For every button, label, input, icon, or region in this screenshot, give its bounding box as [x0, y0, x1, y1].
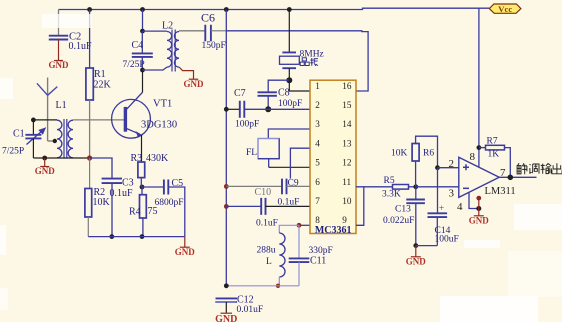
wire pin2 node to opamp — [438, 167, 459, 169]
capacitor C14 — [428, 213, 448, 217]
svg-text:C9: C9 — [288, 178, 299, 188]
junction top rail bus — [224, 7, 229, 12]
svg-text:4: 4 — [457, 201, 463, 213]
wire C1 top lead — [32, 120, 34, 135]
wire C3 bottom lead — [111, 183, 113, 237]
junction bus C9 — [224, 184, 229, 189]
svg-text:MC3361: MC3361 — [315, 225, 352, 236]
junction L3 bottom — [276, 284, 280, 288]
svg-text:C8: C8 — [278, 88, 290, 99]
wire C8 bottom lead — [267, 96, 269, 110]
wire R4 top lead — [141, 187, 143, 195]
svg-text:C6: C6 — [201, 11, 215, 25]
svg-text:GND: GND — [35, 166, 56, 176]
junction gnd rail — [413, 243, 418, 248]
svg-text:8: 8 — [470, 151, 476, 163]
ground C12 — [221, 312, 233, 314]
junction C8 pin2 — [265, 106, 271, 112]
label output 解调输出 — [517, 163, 562, 174]
svg-text:4: 4 — [315, 138, 320, 148]
wire R1 top lead — [89, 10, 91, 69]
junction R3 R4 C5 — [140, 185, 145, 190]
junction pin8 node — [297, 223, 302, 228]
ground L1 — [40, 158, 49, 167]
svg-text:FL: FL — [246, 148, 257, 158]
wire bottom rail tank — [226, 285, 299, 287]
wire node to C3 — [90, 158, 112, 179]
capacitor C11 — [289, 258, 310, 262]
junction crystal top rail — [287, 7, 292, 12]
svg-text:GND: GND — [406, 256, 427, 266]
junction L1 bottom gnd — [42, 156, 47, 161]
wire L2 feed — [142, 10, 144, 32]
svg-text:0.1uF: 0.1uF — [256, 219, 278, 229]
junction R5 C13 node — [413, 184, 418, 189]
svg-text:Vcc: Vcc — [498, 4, 512, 14]
svg-text:R7: R7 — [487, 137, 498, 147]
capacitor C12 — [216, 298, 238, 302]
wire pin8 stub — [299, 224, 310, 226]
inductor L1 primary — [57, 120, 62, 158]
svg-text:C4: C4 — [132, 40, 144, 51]
wire C1 bottom lead — [32, 138, 34, 158]
wire R2 bottom lead — [87, 217, 89, 237]
capacitor C3 — [102, 179, 122, 184]
svg-text:8: 8 — [315, 215, 320, 225]
svg-text:1: 1 — [315, 81, 320, 91]
svg-text:GND: GND — [49, 60, 70, 70]
svg-text:9: 9 — [342, 215, 347, 225]
wire R7 right lead — [505, 148, 511, 178]
wire C13 bottom lead — [415, 203, 417, 245]
svg-text:100uF: 100uF — [435, 235, 459, 245]
wire gnd rail — [416, 245, 438, 247]
svg-text:0.1uF: 0.1uF — [69, 41, 93, 52]
svg-text:288u: 288u — [257, 246, 276, 256]
svg-text:VT1: VT1 — [153, 99, 172, 110]
wire collector — [142, 70, 144, 93]
wire C14 bottom lead — [436, 217, 438, 246]
wire pin11 to R5 — [364, 186, 393, 188]
svg-text:100pF: 100pF — [235, 120, 259, 130]
wire pin4 — [290, 148, 310, 178]
wire crystal top stem — [288, 10, 290, 53]
svg-text:R4: R4 — [129, 207, 141, 218]
svg-text:7: 7 — [315, 196, 320, 206]
wire bus to C9 — [226, 185, 282, 187]
svg-text:C13: C13 — [395, 204, 411, 214]
svg-text:3: 3 — [315, 119, 320, 129]
resistor R3 — [138, 162, 145, 178]
svg-text:7/25P: 7/25P — [2, 147, 24, 157]
wire FL bottom lead — [268, 159, 270, 168]
transistor VT1 — [112, 93, 151, 139]
svg-text:2: 2 — [315, 100, 320, 110]
arrow C1 variable — [27, 128, 46, 144]
wire R5 to node — [409, 186, 416, 188]
svg-text:C10: C10 — [255, 187, 272, 198]
svg-text:GND: GND — [469, 215, 490, 225]
svg-text:6: 6 — [315, 177, 320, 187]
capacitor C13 — [406, 200, 425, 204]
svg-text:150pF: 150pF — [202, 41, 226, 51]
wire C12 bottom stem — [225, 302, 227, 313]
ground L2 — [189, 78, 199, 80]
junction top rail R1 — [87, 7, 92, 12]
wire node to C5 — [142, 186, 164, 188]
svg-text:C12: C12 — [237, 294, 254, 305]
svg-text:430K: 430K — [146, 153, 169, 164]
wire R6 top over — [416, 136, 438, 168]
wire L1 top left — [33, 119, 57, 121]
label crystal 晶振 — [300, 58, 318, 66]
capacitor C8 — [258, 92, 277, 96]
wire L2 sec top to C6 — [179, 30, 205, 32]
op-amp U2 LM311 — [459, 157, 499, 197]
wire pin3 to FL — [268, 129, 310, 139]
svg-text:10K: 10K — [93, 197, 111, 208]
node antenna tap — [53, 139, 57, 143]
resistor R2 — [85, 189, 92, 218]
svg-text:1K: 1K — [488, 150, 500, 160]
wire L2 sec bottom gnd — [179, 67, 194, 79]
junction bus C10 — [224, 204, 229, 209]
capacitor C7 — [240, 101, 245, 118]
wire bus to C10 — [226, 205, 261, 207]
svg-text:GND: GND — [184, 79, 205, 89]
svg-text:3.3K: 3.3K — [382, 190, 401, 200]
svg-text:15: 15 — [342, 100, 352, 110]
junction C1 top — [31, 118, 36, 123]
junction C4 top — [140, 29, 145, 34]
capacitor C6 — [205, 25, 211, 41]
node bias red — [87, 155, 92, 160]
svg-text:5: 5 — [315, 158, 320, 168]
core L2 — [172, 30, 175, 72]
wire C10 to pin7 — [266, 205, 311, 207]
svg-text:16: 16 — [342, 81, 352, 91]
junction top rail L2 — [140, 7, 145, 12]
svg-text:11: 11 — [342, 177, 351, 187]
inductor L2 primary — [167, 32, 172, 68]
svg-text:C3: C3 — [122, 178, 134, 189]
capacitor C9 — [282, 179, 287, 195]
svg-text:100pF: 100pF — [278, 99, 302, 109]
wire Vcc drop — [478, 8, 480, 167]
wire output — [499, 176, 536, 178]
svg-text:10K: 10K — [391, 149, 408, 159]
wire C11 feed — [298, 225, 300, 258]
inductor L3 288u — [279, 233, 285, 277]
svg-text:C1: C1 — [13, 129, 25, 140]
core L1 — [64, 119, 67, 159]
wire C5 right down — [168, 187, 185, 237]
junction R4 rail — [140, 234, 145, 239]
inductor L1 secondary — [68, 120, 73, 158]
wire FL to pin5 — [269, 166, 310, 168]
wire C6 to pin16 riser — [226, 31, 368, 91]
capacitor C4 — [132, 53, 153, 57]
svg-text:10: 10 — [342, 196, 352, 206]
svg-text:R1: R1 — [94, 69, 106, 80]
wire C9 to pin6 — [287, 185, 311, 187]
svg-text:13: 13 — [342, 138, 352, 148]
svg-text:12: 12 — [342, 158, 352, 168]
ground LM311 — [474, 198, 484, 216]
junction pin2 node — [435, 165, 440, 170]
wire node to opamp pin3 — [416, 186, 459, 188]
capacitor C1 variable — [25, 135, 41, 139]
ground C5 rail — [180, 237, 190, 248]
svg-text:R5: R5 — [384, 176, 395, 186]
wire bus to C7 — [226, 108, 239, 110]
resistor R7 — [486, 145, 505, 150]
wire tank top — [279, 225, 299, 233]
power symbol Vcc — [489, 4, 521, 14]
svg-text:3DG130: 3DG130 — [141, 120, 177, 131]
wire C2 top stem — [58, 10, 60, 36]
svg-text:0.01uF: 0.01uF — [237, 305, 264, 315]
svg-text:0.1uF: 0.1uF — [110, 188, 134, 199]
op-amp U1 MC3361 body — [310, 80, 356, 233]
junction bus bottom — [224, 283, 229, 288]
junction output R7 — [508, 175, 514, 181]
wire node to R2 — [89, 158, 91, 189]
wire R7 left lead — [479, 147, 486, 149]
wire C4 bottom lead — [141, 57, 143, 70]
wire L3 bottom lead — [278, 277, 280, 286]
wire C6 to bus — [211, 30, 226, 32]
junction pin4 gnd — [476, 206, 481, 211]
wire C11 bottom lead — [298, 262, 300, 286]
filter FL — [258, 139, 279, 159]
wire C4 L2 bottom link — [143, 67, 168, 70]
wire pin1 — [289, 80, 310, 91]
svg-text:14: 14 — [342, 119, 352, 129]
wire R3 bottom lead — [140, 178, 142, 187]
junction C3 rail — [109, 234, 114, 239]
wire Vcc top rail left — [59, 8, 490, 9]
wire emitter — [141, 135, 143, 163]
svg-text:3: 3 — [449, 187, 455, 199]
capacitor C12 lower plate tint — [216, 301, 237, 303]
ground C13 C14 — [411, 246, 421, 257]
svg-text:L1: L1 — [56, 100, 67, 111]
junction bus C7 — [224, 107, 229, 112]
svg-text:22K: 22K — [94, 80, 112, 91]
junction crystal bottom — [286, 77, 292, 83]
wire bottom left rail — [88, 236, 185, 238]
wire C14 feed — [437, 168, 439, 214]
antenna — [37, 78, 57, 142]
wire vertical bus — [225, 10, 227, 286]
capacitor C5 — [164, 180, 168, 195]
inductor L2 secondary — [174, 32, 179, 68]
svg-text:0.022uF: 0.022uF — [383, 216, 414, 226]
junction C4 bottom — [140, 68, 145, 73]
wire xtal to C8 — [268, 80, 289, 92]
wire C13 top lead — [415, 187, 417, 200]
node gnd via — [476, 196, 481, 201]
capacitor C2 — [49, 36, 68, 40]
capacitor C10 — [261, 198, 265, 215]
svg-text:GND: GND — [175, 247, 196, 257]
ground C2 — [54, 40, 63, 61]
svg-text:330pF: 330pF — [309, 246, 333, 256]
crystal Y1 8MHz — [280, 52, 300, 68]
svg-text:C7: C7 — [234, 88, 246, 99]
wire R1 bottom lead — [89, 100, 91, 158]
wire L1 bottom — [33, 157, 89, 159]
svg-text:2: 2 — [449, 158, 455, 170]
resistor R4 — [140, 195, 147, 218]
svg-text:LM311: LM311 — [485, 186, 516, 197]
wire C4 L2 top link — [143, 30, 168, 32]
wire C7 to pin2 — [244, 108, 310, 110]
svg-text:6800pF: 6800pF — [155, 198, 184, 208]
resistor R1 — [86, 68, 93, 100]
svg-text:L: L — [266, 257, 272, 267]
wire crystal bottom stem — [288, 68, 290, 80]
svg-text:C5: C5 — [172, 178, 184, 189]
svg-text:R6: R6 — [423, 149, 434, 159]
resistor R5 — [393, 185, 409, 190]
resistor R6 — [412, 144, 419, 162]
wire R4 bottom lead — [142, 218, 144, 237]
wire R6 bottom lead — [415, 161, 417, 187]
wire pin9 bracket — [356, 187, 364, 226]
wire opamp pin4 — [469, 192, 479, 208]
junction R7 Vcc — [477, 145, 482, 150]
wire C4 top lead — [141, 31, 143, 53]
wire base — [73, 119, 125, 121]
svg-text:C11: C11 — [310, 256, 326, 267]
svg-text:GND: GND — [215, 314, 237, 322]
